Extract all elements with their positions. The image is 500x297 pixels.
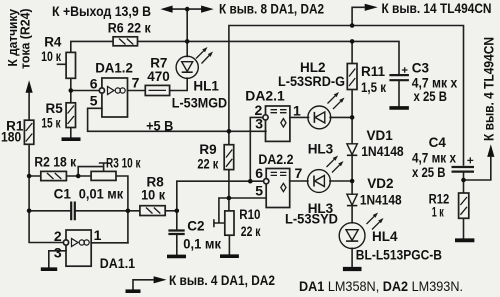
svg-text:0,1 мк: 0,1 мк bbox=[183, 237, 221, 252]
hatch R2 bbox=[47, 173, 61, 179]
ground R10 bbox=[220, 254, 239, 258]
wire R12 bottom to ground bbox=[463, 218, 465, 238]
diode VD2 bbox=[347, 194, 357, 205]
node 5V line / pin14 arrow bbox=[350, 23, 355, 28]
ground symbols bbox=[41, 108, 475, 291]
svg-text:К +Выход 13,9 В: К +Выход 13,9 В bbox=[52, 3, 151, 19]
svg-text:1: 1 bbox=[94, 227, 102, 243]
svg-text:DA1.2: DA1.2 bbox=[95, 61, 133, 76]
wire DA1.2 pin5 step to +5V line bbox=[88, 108, 266, 131]
hatch R11 bbox=[349, 69, 355, 87]
svg-text:R2 18 к: R2 18 к bbox=[34, 154, 76, 169]
wire node to TL494 pin4 arrow bbox=[464, 158, 491, 181]
wire R11 bottom to HL2 node bbox=[351, 90, 353, 118]
svg-text:R4: R4 bbox=[44, 35, 62, 50]
svg-text:22 к: 22 к bbox=[241, 224, 261, 239]
wire VD1 to HL3 node bbox=[351, 155, 353, 181]
op-amp DA1.1 bbox=[63, 230, 91, 266]
svg-text:К выв. 4 TL494CN: К выв. 4 TL494CN bbox=[482, 37, 497, 141]
svg-text:х 25 В: х 25 В bbox=[414, 89, 448, 104]
svg-text:К выв. 8 DA1, DA2: К выв. 8 DA1, DA2 bbox=[219, 1, 324, 17]
ground R12 bbox=[455, 238, 474, 242]
HL2 emission arrows bbox=[328, 92, 345, 109]
resistor R11 bbox=[347, 64, 357, 90]
svg-text:HL2: HL2 bbox=[300, 60, 326, 75]
node HL2 / VD1 bbox=[350, 115, 355, 120]
arrow right to DA pin4 bbox=[154, 276, 167, 283]
svg-text:1 к: 1 к bbox=[432, 205, 444, 220]
resistor R3 bbox=[91, 171, 116, 180]
wire ground flag to DA pin4 arrow bbox=[133, 280, 153, 290]
svg-text:C2: C2 bbox=[187, 218, 204, 233]
svg-text:DA1 LM358N, DA2 LM393N.: DA1 LM358N, DA2 LM393N. bbox=[299, 278, 463, 294]
wire R3 right to vertical down bbox=[116, 176, 128, 243]
C4 plus sign bbox=[467, 157, 473, 163]
svg-text:5: 5 bbox=[255, 182, 263, 198]
svg-text:10 к: 10 к bbox=[141, 188, 165, 203]
C3 plus sign bbox=[402, 67, 408, 73]
wire HL2 node to VD1 bbox=[351, 117, 353, 143]
svg-text:DA2.2: DA2.2 bbox=[258, 152, 293, 167]
wire R3 trimmer tap bbox=[78, 163, 107, 175]
svg-text:HL4: HL4 bbox=[372, 229, 398, 244]
capacitor C1 bbox=[71, 202, 75, 221]
ground common flag bbox=[126, 289, 141, 293]
wire 13.9V sense line y=41.4 R4 corner to C3 corner bbox=[71, 41, 399, 75]
svg-text:2: 2 bbox=[54, 228, 62, 244]
svg-text:22 к: 22 к bbox=[197, 156, 218, 171]
svg-text:R6 22 к: R6 22 к bbox=[108, 20, 151, 35]
wire DA2.2 output to HL3 bbox=[290, 180, 308, 182]
wire C2 bottom to ground bbox=[176, 234, 178, 255]
ground R5 bbox=[62, 137, 81, 141]
svg-text:3: 3 bbox=[255, 116, 263, 132]
wire arrow to TL494 pin14 bbox=[352, 7, 364, 25]
hatch R12 bbox=[460, 197, 467, 215]
wire R9 bottom to dot to R10 bbox=[228, 170, 230, 211]
wire 5V line y=25.5 bbox=[229, 26, 464, 166]
svg-text:HL3: HL3 bbox=[308, 142, 334, 157]
svg-text:C4: C4 bbox=[429, 135, 447, 150]
svg-text:VD2: VD2 bbox=[367, 176, 393, 191]
wire C4 bottom to node bbox=[463, 171, 465, 180]
resistor R7 bbox=[145, 85, 169, 95]
svg-text:1N4148: 1N4148 bbox=[361, 144, 404, 159]
resistor R8 bbox=[140, 206, 165, 216]
comparator DA2.2 bbox=[264, 169, 290, 208]
svg-text:6: 6 bbox=[255, 165, 263, 181]
svg-text:10 к: 10 к bbox=[41, 49, 61, 64]
hatch R9 bbox=[226, 150, 232, 167]
wire R8 node up and right to DA2.2 pin6 bbox=[177, 181, 264, 211]
LED HL3 bbox=[308, 170, 331, 193]
svg-text:7: 7 bbox=[295, 165, 303, 181]
node left rail / C1 line bbox=[27, 209, 32, 214]
svg-text:C1: C1 bbox=[54, 187, 72, 202]
wire C2 top lead bbox=[176, 211, 178, 231]
arrow right to pin14 bbox=[365, 4, 378, 11]
capacitor C2 bbox=[168, 231, 184, 235]
svg-text:х 25 В: х 25 В bbox=[412, 165, 446, 180]
wire DA2.1 output to HL2 bbox=[290, 116, 309, 118]
wire node to R12 bbox=[463, 180, 465, 193]
wire HL2 to rail bbox=[330, 116, 352, 118]
wire R4 bottom to junction to R5 top bbox=[70, 78, 72, 103]
wire R8 line bbox=[165, 210, 177, 212]
hatch R7 single dash bbox=[149, 89, 167, 91]
resistor R10 bbox=[225, 211, 234, 235]
wire HL3 node to VD2 bbox=[351, 181, 353, 194]
wire DA1.1 output up to node bbox=[91, 242, 128, 244]
HL3 emission arrows bbox=[327, 156, 344, 173]
wire R11 top lead bbox=[351, 41, 353, 63]
node HL3 / VD2 bbox=[350, 179, 355, 184]
svg-text:3: 3 bbox=[54, 244, 62, 260]
hatch R1 bbox=[26, 123, 33, 142]
node +5V / R9 rail bbox=[227, 129, 232, 134]
wire R1 bottom to R2 line to C1 line to DA1.1 pin2 bbox=[29, 144, 63, 242]
resistor R1 bbox=[24, 120, 33, 144]
svg-text:R10: R10 bbox=[239, 207, 260, 222]
capacitor C3 polarized bbox=[389, 75, 409, 80]
svg-text:L-53MGD: L-53MGD bbox=[172, 96, 228, 111]
resistor R2 bbox=[41, 171, 67, 180]
ground C2 bbox=[167, 255, 186, 259]
svg-text:R5: R5 bbox=[46, 101, 64, 116]
wire DA1.1 pin3 to ground bbox=[49, 251, 66, 268]
arrow left to +Vyhod bbox=[161, 6, 173, 13]
svg-text:15 к: 15 к bbox=[41, 115, 60, 130]
node 13.9 line / R11 bbox=[350, 39, 355, 44]
svg-text:R3 10 к: R3 10 к bbox=[106, 156, 141, 171]
svg-text:BL-L513PGC-B: BL-L513PGC-B bbox=[356, 248, 442, 263]
wire R2 line bbox=[29, 175, 91, 177]
wire sensor input arrow shaft to R1 bbox=[28, 93, 30, 121]
svg-text:6: 6 bbox=[90, 76, 98, 92]
svg-text:DA2.1: DA2.1 bbox=[245, 88, 285, 103]
arrow right to pin8 bbox=[201, 6, 214, 13]
hatch R6 bbox=[119, 39, 133, 45]
node C4 / R12 / pin4 bbox=[461, 178, 466, 183]
resistor R5 bbox=[66, 103, 75, 128]
arrow up sensor input bbox=[26, 80, 33, 93]
svg-text:180: 180 bbox=[1, 129, 21, 144]
svg-text:L-53SRD-G: L-53SRD-G bbox=[278, 74, 345, 89]
resistor R9 bbox=[224, 145, 234, 170]
wire C1 line bbox=[29, 210, 140, 212]
node R9 / R10 / pin5 bbox=[227, 196, 232, 201]
ground C3 bbox=[389, 106, 409, 110]
node pin2 / pin6 bbox=[248, 179, 253, 184]
node R4 R5 pin6 bbox=[69, 88, 74, 93]
node X C1 R8 DA1.1 out bbox=[126, 209, 131, 214]
svg-text:К выв. 4 DA1, DA2: К выв. 4 DA1, DA2 bbox=[169, 272, 275, 288]
svg-text:VD1: VD1 bbox=[367, 128, 394, 143]
comparator DA2.1 bbox=[263, 106, 290, 141]
wire R5 bottom to ground bbox=[70, 128, 72, 138]
svg-text:5: 5 bbox=[90, 92, 98, 108]
wire R10 trimmer tap bbox=[214, 198, 229, 226]
wire DA1.2 pin6 input bbox=[71, 90, 100, 92]
svg-text:+5 В: +5 В bbox=[146, 119, 174, 134]
svg-text:HL1: HL1 bbox=[193, 78, 219, 93]
svg-text:470: 470 bbox=[147, 69, 170, 84]
svg-text:тока (R24): тока (R24) bbox=[19, 9, 33, 70]
wire R10 bottom to ground bbox=[228, 235, 230, 255]
wire 10k label leader bbox=[58, 63, 67, 65]
svg-text:1,5 к: 1,5 к bbox=[361, 80, 386, 95]
LED HL1 bbox=[176, 56, 198, 78]
svg-text:L-53SYD: L-53SYD bbox=[285, 211, 338, 226]
ground HL4 bbox=[343, 267, 362, 271]
LED HL2 bbox=[308, 106, 331, 129]
node R1 / R2 bbox=[27, 174, 32, 179]
hatch R8 bbox=[146, 208, 160, 214]
svg-text:R9: R9 bbox=[199, 142, 216, 157]
wire top 13.9V rail bbox=[171, 8, 203, 10]
resistor R4 bbox=[66, 52, 75, 78]
svg-text:R11: R11 bbox=[361, 64, 386, 79]
svg-text:0,01 мк: 0,01 мк bbox=[79, 187, 124, 202]
wire VD2 to HL4 bbox=[351, 206, 353, 223]
wire junction up to DA2.1 pin2 bbox=[250, 117, 263, 181]
arrow up to TL494 pin4 bbox=[487, 144, 494, 157]
node top rail junction bbox=[185, 7, 190, 12]
node R8 / C2 bbox=[175, 209, 180, 214]
svg-text:DA1.1: DA1.1 bbox=[100, 256, 136, 271]
svg-text:1: 1 bbox=[293, 103, 301, 119]
wire HL4 cathode to ground bbox=[351, 248, 353, 267]
svg-text:7: 7 bbox=[132, 75, 140, 91]
HL1 emission arrows bbox=[196, 47, 213, 64]
node 13.9 line / HL1 bbox=[185, 39, 190, 44]
svg-text:C3: C3 bbox=[412, 60, 430, 75]
wire C3 bottom to ground bbox=[398, 80, 400, 106]
LED HL4 bbox=[339, 223, 365, 249]
wire DA2.2 pin5 bbox=[229, 197, 266, 199]
hatch R5 bbox=[68, 106, 75, 125]
resistor R6 bbox=[113, 37, 137, 46]
node R2 / R3 tap bbox=[76, 174, 81, 179]
wire HL3 to rail bbox=[330, 180, 352, 182]
COMPONENT BODIES bbox=[24, 37, 468, 235]
svg-text:4,7 мк х: 4,7 мк х bbox=[412, 150, 456, 165]
wire vertical from top rail to HL1 anode bbox=[186, 9, 188, 56]
capacitor C4 polarized bbox=[452, 167, 475, 172]
wire DA1.2 pin7 output to R7 bbox=[128, 90, 146, 92]
op-amp DA1.2 bbox=[99, 78, 127, 117]
svg-text:К выв. 14 TL494CN: К выв. 14 TL494CN bbox=[382, 0, 492, 16]
diode VD1 bbox=[347, 144, 357, 156]
svg-text:1N4148: 1N4148 bbox=[360, 192, 402, 207]
resistor R12 bbox=[459, 193, 469, 218]
wire R7 to HL1 cathode bbox=[170, 78, 188, 90]
HL4 emission arrows bbox=[367, 213, 384, 230]
ground DA1.1 pin3 bbox=[41, 267, 57, 271]
